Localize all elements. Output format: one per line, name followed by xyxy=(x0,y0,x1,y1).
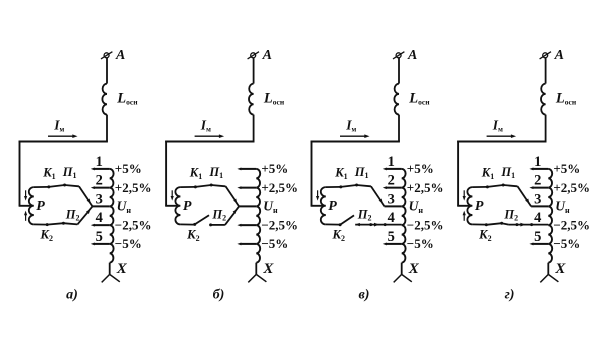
svg-text:X: X xyxy=(116,261,128,277)
svg-text:A: A xyxy=(554,48,564,63)
wire A to Losn xyxy=(545,58,547,84)
svg-text:−5%: −5% xyxy=(115,236,142,251)
svg-text:P: P xyxy=(475,199,484,214)
svg-text:+5%: +5% xyxy=(407,161,434,176)
wire Losn to corner xyxy=(253,115,255,142)
reactor P winding xyxy=(321,187,326,224)
tap 2 lead xyxy=(95,187,110,189)
tap 1 lead xyxy=(387,168,402,170)
tap 5 lead xyxy=(241,243,256,245)
svg-text:+2,5%: +2,5% xyxy=(553,180,590,195)
reactor top lead xyxy=(180,186,195,188)
svg-text:A: A xyxy=(115,48,125,63)
svg-text:−2,5%: −2,5% xyxy=(407,217,444,232)
contactor K1 pivot xyxy=(339,185,342,188)
svg-text:X: X xyxy=(262,261,274,277)
stub to reactor xyxy=(19,205,32,207)
terminal X fork xyxy=(394,274,402,282)
svg-text:A: A xyxy=(407,48,417,63)
selector P1 pivot xyxy=(355,184,358,187)
contactor K2 blade (open) xyxy=(195,215,209,224)
reactor bottom lead xyxy=(34,223,47,225)
current arrow in upper reactor half xyxy=(317,190,319,197)
reactor top lead xyxy=(326,186,341,188)
tap 4 lead xyxy=(241,224,256,226)
wire A to Losn xyxy=(106,58,108,84)
reactor top lead xyxy=(472,186,487,188)
svg-text:4: 4 xyxy=(96,210,103,226)
current arrow Im xyxy=(340,135,365,137)
selector P2 pivot xyxy=(209,223,212,226)
svg-text:−5%: −5% xyxy=(553,236,580,251)
svg-text:−2,5%: −2,5% xyxy=(261,217,298,232)
contactor K2 blade (open) xyxy=(340,215,354,224)
current arrow Im xyxy=(487,135,512,137)
selector P1 contact to tap 3 xyxy=(79,186,93,206)
contactor K1 blade (closed) xyxy=(487,185,503,187)
tap 4 lead xyxy=(95,224,110,226)
svg-text:2: 2 xyxy=(534,173,541,189)
terminal A (г) xyxy=(543,53,548,58)
stub to reactor xyxy=(457,205,470,207)
tap 5 lead xyxy=(533,243,548,245)
tap 2 lead xyxy=(241,187,256,189)
selector P2 engaged on tap 4 xyxy=(355,223,360,226)
current arrow Im xyxy=(48,135,73,137)
selector P1 pivot xyxy=(63,184,66,187)
svg-text:+2,5%: +2,5% xyxy=(407,180,444,195)
inductor Losn xyxy=(102,84,107,115)
inductor Losn xyxy=(249,84,254,115)
contactor K2 pivot xyxy=(339,223,342,226)
terminal A (в) xyxy=(396,53,401,58)
contactor K2 pivot xyxy=(485,223,488,226)
current arrow in upper reactor half xyxy=(25,190,27,197)
tap 1 lead xyxy=(95,168,110,170)
selector P1 pivot xyxy=(210,184,213,187)
contactor K1 blade (closed) xyxy=(195,185,211,187)
svg-text:в): в) xyxy=(359,287,370,302)
reactor bottom lead xyxy=(326,223,339,225)
contactor K2 blade (closed) xyxy=(486,223,501,225)
selector P2 contact to tap 3 xyxy=(225,206,239,225)
tap 1 lead xyxy=(241,168,256,170)
svg-text:−5%: −5% xyxy=(407,236,434,251)
selector P2 pivot xyxy=(62,222,65,225)
selector P1 pivot xyxy=(502,184,505,187)
tap 3 lead (junction) xyxy=(93,205,110,207)
left vertical wire xyxy=(165,141,167,206)
wire winding to X xyxy=(109,263,111,275)
reactor bottom lead xyxy=(472,223,485,225)
svg-text:5: 5 xyxy=(96,229,103,245)
svg-text:1: 1 xyxy=(388,154,395,170)
tap 3 lead (junction) xyxy=(239,205,256,207)
left vertical wire xyxy=(457,141,459,206)
svg-text:4: 4 xyxy=(388,210,395,226)
selector P1 arm xyxy=(65,185,79,186)
wire winding to X xyxy=(547,263,549,275)
svg-text:−2,5%: −2,5% xyxy=(553,217,590,232)
reactor top lead xyxy=(34,186,49,188)
svg-text:5: 5 xyxy=(388,229,395,245)
regulating winding xyxy=(402,169,406,263)
svg-text:+5%: +5% xyxy=(553,161,580,176)
left vertical wire xyxy=(311,141,313,206)
contactor K1 blade (closed) xyxy=(341,185,357,187)
tap 3 lead (junction) xyxy=(385,205,402,207)
wire Losn to corner xyxy=(545,115,547,142)
current arrow in upper reactor half xyxy=(463,190,465,197)
svg-text:1: 1 xyxy=(96,154,103,170)
wire A to Losn xyxy=(253,58,255,84)
svg-text:4: 4 xyxy=(534,210,541,226)
svg-text:б): б) xyxy=(213,287,225,302)
selector P2 arm xyxy=(211,224,225,226)
svg-text:3: 3 xyxy=(96,191,103,207)
svg-text:P: P xyxy=(328,199,337,214)
svg-text:−5%: −5% xyxy=(261,236,288,251)
tap 3 lead (junction) xyxy=(531,205,548,207)
svg-text:3: 3 xyxy=(388,191,395,207)
regulating winding xyxy=(548,169,552,263)
terminal X fork xyxy=(102,274,110,282)
tap 5 lead xyxy=(387,243,402,245)
svg-text:+2,5%: +2,5% xyxy=(115,180,152,195)
wire Losn to corner xyxy=(106,115,108,142)
contactor K1 pivot xyxy=(47,185,50,188)
svg-text:X: X xyxy=(554,261,566,277)
svg-text:1: 1 xyxy=(534,154,541,170)
svg-text:г): г) xyxy=(505,287,515,302)
stub to reactor xyxy=(165,205,178,207)
selector P1 arm xyxy=(357,185,371,186)
terminal A (б) xyxy=(251,53,256,58)
svg-text:3: 3 xyxy=(534,191,541,207)
selector P1 contact to tap 3 xyxy=(518,186,532,206)
wire A to Losn xyxy=(398,58,400,84)
svg-text:+2,5%: +2,5% xyxy=(261,180,298,195)
selector P1 contact to tap 3 xyxy=(371,186,385,206)
reactor P winding xyxy=(29,187,34,224)
terminal X fork xyxy=(248,274,256,282)
selector P2 contact to tap 3 xyxy=(77,206,92,224)
contactor K1 pivot xyxy=(194,185,197,188)
svg-text:X: X xyxy=(408,261,420,277)
current arrow in upper reactor half xyxy=(171,190,173,197)
terminal X fork xyxy=(540,274,548,282)
regulating winding xyxy=(110,169,114,263)
wire Losn to corner xyxy=(398,115,400,142)
svg-text:а): а) xyxy=(66,287,78,302)
horizontal wire xyxy=(457,141,546,143)
svg-text:+5%: +5% xyxy=(261,161,288,176)
svg-text:P: P xyxy=(183,199,192,214)
contactor K1 pivot xyxy=(486,185,489,188)
svg-text:5: 5 xyxy=(534,229,541,245)
horizontal wire xyxy=(19,141,108,143)
wire winding to X xyxy=(401,263,403,275)
horizontal wire xyxy=(311,141,400,143)
contactor K2 pivot xyxy=(46,223,49,226)
inductor Losn xyxy=(541,84,546,115)
svg-text:2: 2 xyxy=(388,173,395,189)
current arrow in lower reactor half xyxy=(463,214,465,221)
svg-text:2: 2 xyxy=(96,173,103,189)
contactor K2 pivot xyxy=(193,223,196,226)
horizontal wire xyxy=(165,141,254,143)
selector P2 arm xyxy=(63,223,77,224)
current arrow in lower reactor half xyxy=(25,214,27,221)
selector P1 arm xyxy=(503,185,517,186)
svg-text:A: A xyxy=(262,48,272,63)
svg-text:+5%: +5% xyxy=(115,161,142,176)
regulating winding xyxy=(256,169,260,263)
contactor K1 blade (closed) xyxy=(49,185,65,187)
svg-text:−2,5%: −2,5% xyxy=(115,217,152,232)
tap 5 lead xyxy=(95,243,110,245)
terminal A (а) xyxy=(104,53,109,58)
current arrow Im xyxy=(195,135,220,137)
left vertical wire xyxy=(19,141,21,206)
svg-text:P: P xyxy=(36,199,45,214)
selector P1 contact to tap 3 xyxy=(226,186,240,206)
stub to reactor xyxy=(311,205,324,207)
tap 2 lead xyxy=(533,187,548,189)
selector P2 engaged on tap 4 xyxy=(502,223,509,224)
selector P2 pivot xyxy=(500,222,503,225)
selector P1 arm xyxy=(211,185,225,186)
inductor Losn xyxy=(394,84,399,115)
reactor P winding xyxy=(467,187,472,224)
reactor P winding xyxy=(175,187,180,224)
contactor K2 blade (closed) xyxy=(47,223,63,224)
tap 2 lead xyxy=(387,187,402,189)
reactor bottom lead xyxy=(180,223,193,225)
tap 1 lead xyxy=(533,168,548,170)
wire winding to X xyxy=(255,263,257,275)
